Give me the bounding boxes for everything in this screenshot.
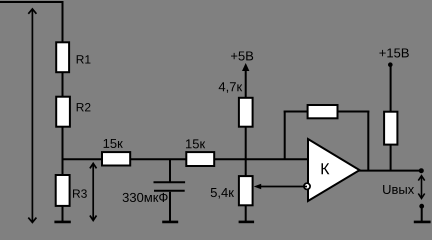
main horizontal wire (node A to op-amp input) — [62, 158, 309, 160]
wire divider (4,7к to 5,4к through main wire) — [245, 127, 247, 177]
capacitor 330мкФ plates — [154, 181, 186, 183]
wire output ground — [421, 206, 423, 222]
label 15к (first) — [104, 139, 123, 148]
pull-up resistor (right) — [384, 112, 397, 145]
output wire — [358, 170, 422, 172]
label +15В — [379, 48, 408, 57]
label 15к (second) — [186, 139, 205, 148]
output double-headed arrow (Uвых marker) — [418, 176, 424, 199]
+5В supply arrow — [245, 67, 247, 98]
wire capacitor to ground (bottom lead) — [169, 192, 171, 222]
label 4,7к — [219, 82, 243, 93]
resistor R3 — [56, 175, 70, 206]
label R3 — [73, 189, 87, 198]
wire capacitor branch (top lead) — [169, 159, 171, 182]
ground (output) — [414, 221, 431, 224]
inverting input bubble — [304, 183, 310, 189]
feedback vertical wire (left, from main wire up) — [284, 111, 286, 160]
feedback resistor — [308, 105, 338, 118]
wire resistor to output wire — [390, 145, 392, 172]
wire top horizontal from left edge — [0, 1, 64, 3]
resistor 15к (first) — [102, 152, 130, 165]
ground (capacitor) — [162, 221, 178, 224]
label R2 — [77, 103, 91, 111]
ground (R3) — [54, 221, 70, 224]
resistor 15к (second) — [186, 152, 214, 166]
wire +15В to resistor — [390, 65, 392, 112]
wire 5,4к to ground — [245, 205, 247, 222]
wire R1 to R2 — [62, 72, 64, 97]
resistor 5,4к (potentiometer body) — [239, 176, 253, 205]
long double-headed arrow (input voltage marker) — [28, 9, 36, 223]
small double-headed arrow (R3 voltage marker) — [90, 163, 97, 220]
feedback vertical wire (right, down to output) — [367, 111, 369, 171]
ground node dot (right) — [419, 204, 424, 209]
label 5,4к — [211, 188, 234, 199]
+15В supply node dot — [388, 62, 393, 67]
ground (5,4к) — [239, 221, 255, 224]
output node dot — [419, 168, 424, 173]
wiper arrow wire (pot wiper to inverting input) — [259, 186, 307, 188]
label 330мкФ — [123, 193, 168, 202]
label +5В — [231, 51, 253, 60]
feedback horizontal wire — [284, 111, 370, 113]
label R1 — [77, 55, 91, 63]
label Uвых — [383, 185, 414, 194]
op-amp U1 (comparator) — [308, 139, 360, 201]
label К — [322, 163, 330, 174]
resistor 4,7к — [239, 98, 253, 127]
wire R2 to node A to R3 — [62, 127, 64, 176]
wire vertical drop to R1 — [62, 1, 64, 43]
wire R3 to ground — [62, 206, 64, 222]
resistor R2 — [56, 97, 70, 127]
resistor R1 — [56, 42, 69, 72]
